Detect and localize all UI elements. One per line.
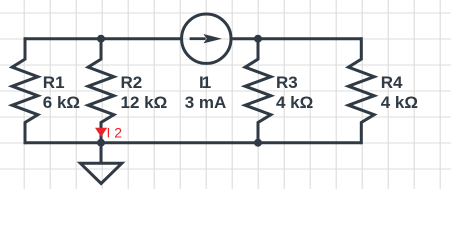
wire top rail right — [232, 37, 361, 40]
node R3 bottom — [254, 139, 262, 147]
svg-text:R2: R2 — [121, 73, 143, 92]
node R3 top — [254, 35, 262, 43]
svg-text:4 kΩ: 4 kΩ — [276, 93, 313, 112]
resistor R3 — [245, 39, 271, 143]
ground lead wire — [100, 143, 103, 164]
resistor R1 — [12, 37, 38, 144]
svg-text:R3: R3 — [276, 73, 298, 92]
node R2 bottom (ground junction) — [97, 139, 105, 147]
svg-text:R1: R1 — [43, 73, 65, 92]
node R2 top — [97, 35, 105, 43]
current source arrow — [190, 34, 222, 43]
svg-text:12 kΩ: 12 kΩ — [121, 93, 168, 112]
resistor R4 — [348, 37, 374, 144]
svg-text:6 kΩ: 6 kΩ — [43, 93, 80, 112]
svg-text:I1: I1 — [199, 73, 211, 92]
resistor R2 — [88, 39, 114, 143]
svg-text:I 2: I 2 — [107, 125, 123, 141]
ground — [80, 163, 121, 183]
wire bottom rail — [25, 141, 361, 144]
svg-text:4 kΩ: 4 kΩ — [381, 93, 418, 112]
current probe marker I2 — [95, 128, 107, 137]
wire top rail left — [25, 37, 181, 40]
svg-text:R4: R4 — [381, 73, 403, 92]
svg-text:3 mA: 3 mA — [185, 93, 227, 112]
current source I1 — [182, 14, 231, 63]
